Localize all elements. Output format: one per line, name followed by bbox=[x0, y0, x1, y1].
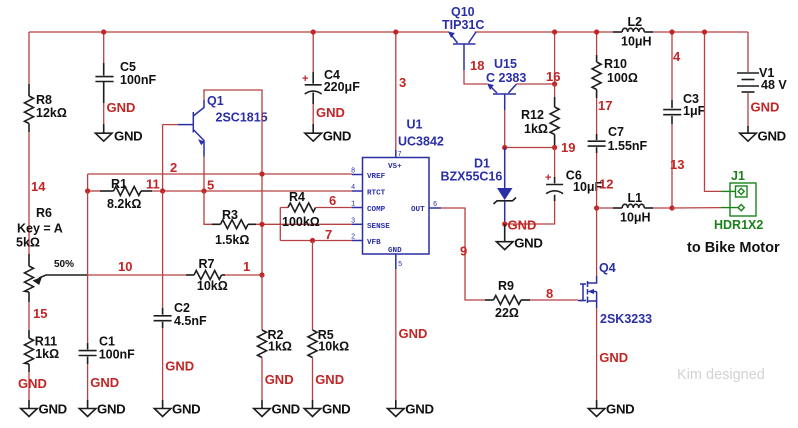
wire line 10 bbox=[88, 274, 262, 276]
svg-text:GND: GND bbox=[514, 236, 542, 251]
svg-text:100kΩ: 100kΩ bbox=[282, 215, 320, 229]
ground V1 bbox=[740, 128, 786, 143]
svg-text:9: 9 bbox=[460, 244, 467, 259]
svg-text:100nF: 100nF bbox=[120, 73, 156, 87]
wire node11 down to C2 bbox=[162, 191, 164, 308]
svg-text:1.55nF: 1.55nF bbox=[608, 139, 648, 153]
resistor R10 bbox=[592, 32, 638, 98]
wire Q1 collector loop bbox=[204, 90, 262, 275]
svg-text:12: 12 bbox=[599, 177, 613, 192]
resistor R3 bbox=[212, 208, 256, 247]
svg-text:GND: GND bbox=[751, 100, 780, 115]
wire line 5 RTCT bbox=[88, 190, 352, 192]
svg-text:Q1: Q1 bbox=[207, 94, 224, 108]
resistor R7 bbox=[186, 257, 228, 293]
svg-text:R9: R9 bbox=[498, 279, 514, 293]
svg-text:16: 16 bbox=[546, 69, 560, 84]
wire R9 to Q4 gate bbox=[530, 299, 578, 301]
wire line 2 VREF bbox=[88, 173, 352, 175]
svg-text:R4: R4 bbox=[289, 190, 305, 204]
svg-text:1.5kΩ: 1.5kΩ bbox=[215, 233, 249, 247]
svg-text:GND: GND bbox=[399, 326, 428, 341]
junction line3 top bbox=[393, 29, 398, 34]
svg-text:C1: C1 bbox=[99, 334, 115, 348]
svg-text:GND: GND bbox=[316, 105, 345, 120]
svg-text:50%: 50% bbox=[54, 259, 74, 270]
junction C3 top bbox=[669, 29, 674, 34]
svg-text:11: 11 bbox=[146, 177, 160, 192]
svg-text:+: + bbox=[545, 172, 551, 184]
svg-text:5kΩ: 5kΩ bbox=[16, 236, 40, 250]
svg-text:1μF: 1μF bbox=[683, 104, 706, 118]
svg-text:GND: GND bbox=[315, 372, 344, 387]
svg-text:10kΩ: 10kΩ bbox=[318, 339, 349, 353]
svg-text:RTCT: RTCT bbox=[367, 190, 386, 198]
svg-text:12kΩ: 12kΩ bbox=[36, 106, 67, 120]
node 7 bbox=[310, 227, 332, 243]
wire Q4 source to ground bbox=[596, 308, 598, 400]
svg-text:R7: R7 bbox=[199, 257, 215, 271]
junction node at 87.6,191 bbox=[85, 188, 90, 193]
svg-text:1: 1 bbox=[243, 259, 250, 274]
wire Q4 drain up bbox=[596, 208, 598, 276]
svg-text:14: 14 bbox=[31, 179, 46, 194]
battery V1 bbox=[737, 32, 787, 133]
svg-text:TIP31C: TIP31C bbox=[442, 18, 484, 32]
junction R3 right bbox=[259, 222, 264, 227]
resistor R1 bbox=[100, 177, 152, 211]
ground D1 bbox=[496, 224, 542, 251]
svg-text:J1: J1 bbox=[731, 169, 745, 183]
svg-text:GND: GND bbox=[758, 128, 786, 143]
resistor R9 bbox=[485, 279, 530, 320]
svg-text:C 2383: C 2383 bbox=[486, 71, 526, 85]
svg-text:R1: R1 bbox=[111, 177, 127, 191]
resistor R2 bbox=[258, 328, 292, 409]
ground C2 bbox=[154, 402, 200, 417]
svg-text:GND: GND bbox=[265, 372, 294, 387]
svg-text:GND: GND bbox=[165, 359, 194, 374]
svg-text:R10: R10 bbox=[604, 57, 627, 71]
wire R2 branch bbox=[261, 275, 263, 330]
inductor L1 bbox=[597, 191, 672, 224]
wire R5 branch bbox=[312, 241, 314, 331]
svg-text:Kim designed: Kim designed bbox=[677, 367, 765, 383]
svg-text:BZX55C16: BZX55C16 bbox=[441, 169, 503, 183]
svg-text:8.2kΩ: 8.2kΩ bbox=[107, 197, 141, 211]
svg-text:GND: GND bbox=[323, 128, 351, 143]
svg-text:100nF: 100nF bbox=[99, 348, 135, 362]
ground U1 bbox=[388, 402, 434, 417]
svg-text:GND: GND bbox=[172, 402, 200, 417]
potentiometer R6 bbox=[16, 206, 88, 292]
junction J1 top feed bbox=[702, 29, 707, 34]
svg-text:VS+: VS+ bbox=[388, 163, 402, 171]
wire Q1 emitter to line 5 bbox=[203, 157, 205, 192]
transistor U15 bbox=[486, 57, 526, 110]
wire Q1 base to node 11 bbox=[162, 125, 164, 191]
svg-text:10: 10 bbox=[118, 259, 132, 274]
junction node 2 at x262 bbox=[259, 171, 264, 176]
svg-text:R12: R12 bbox=[521, 108, 544, 122]
svg-text:C5: C5 bbox=[120, 60, 136, 74]
svg-text:2: 2 bbox=[351, 234, 355, 242]
svg-text:1: 1 bbox=[351, 201, 355, 209]
junction node16 bbox=[552, 81, 557, 86]
node 1 bbox=[243, 259, 265, 278]
svg-text:7: 7 bbox=[398, 151, 402, 159]
op-amp U1 UC3842 bbox=[351, 117, 444, 269]
svg-text:19: 19 bbox=[561, 140, 575, 155]
svg-text:1kΩ: 1kΩ bbox=[524, 122, 548, 136]
capacitor C7 bbox=[588, 125, 648, 208]
svg-text:to Bike Motor: to Bike Motor bbox=[687, 240, 780, 256]
transistor Q1 bbox=[163, 94, 268, 157]
ground R5 bbox=[304, 402, 350, 417]
svg-text:48 V: 48 V bbox=[761, 78, 787, 92]
svg-text:GND: GND bbox=[90, 375, 119, 390]
capacitor C4 bbox=[302, 32, 360, 133]
svg-text:10kΩ: 10kΩ bbox=[197, 279, 228, 293]
svg-text:8: 8 bbox=[351, 168, 355, 176]
svg-text:3: 3 bbox=[351, 217, 355, 225]
svg-text:GND: GND bbox=[599, 350, 628, 365]
svg-text:6: 6 bbox=[329, 193, 336, 208]
ground Q4 bbox=[588, 402, 634, 417]
capacitor C1 bbox=[79, 334, 136, 408]
junction top C4 bbox=[311, 29, 316, 34]
svg-text:4: 4 bbox=[673, 49, 681, 64]
svg-text:18: 18 bbox=[470, 58, 484, 73]
svg-text:15: 15 bbox=[33, 306, 47, 321]
svg-text:Q4: Q4 bbox=[599, 261, 616, 275]
junction node 12 bbox=[594, 205, 599, 210]
ground R2 bbox=[254, 402, 300, 417]
junction top C5 bbox=[101, 29, 106, 34]
svg-text:13: 13 bbox=[670, 157, 684, 172]
svg-text:10μH: 10μH bbox=[621, 35, 652, 49]
svg-text:2SK3233: 2SK3233 bbox=[600, 312, 652, 326]
node 11 bbox=[146, 177, 165, 194]
svg-text:GND: GND bbox=[388, 247, 402, 255]
svg-text:VREF: VREF bbox=[367, 173, 386, 181]
svg-text:22Ω: 22Ω bbox=[495, 306, 519, 320]
wire U15 base to line 19 bbox=[504, 110, 506, 148]
capacitor C3 bbox=[663, 32, 705, 208]
svg-text:C7: C7 bbox=[608, 125, 624, 139]
ground R11 bbox=[21, 402, 67, 417]
resistor R8 bbox=[25, 93, 67, 124]
svg-text:L1: L1 bbox=[628, 191, 643, 205]
svg-text:GND: GND bbox=[18, 376, 47, 391]
junction D1 gnd bbox=[502, 221, 507, 226]
junction line19 right bbox=[552, 145, 557, 150]
svg-text:17: 17 bbox=[598, 98, 612, 113]
svg-text:R6: R6 bbox=[36, 206, 52, 220]
svg-text:100Ω: 100Ω bbox=[607, 71, 638, 85]
svg-text:6: 6 bbox=[433, 201, 437, 209]
svg-text:2SC1815: 2SC1815 bbox=[216, 111, 268, 125]
svg-text:L2: L2 bbox=[628, 15, 643, 29]
ground C4 bbox=[305, 128, 351, 143]
svg-text:1kΩ: 1kΩ bbox=[35, 347, 59, 361]
junction line19 left bbox=[502, 145, 507, 150]
svg-text:SENSE: SENSE bbox=[367, 223, 390, 231]
capacitor C2 bbox=[154, 301, 207, 409]
resistor R11 bbox=[25, 335, 60, 364]
svg-text:GND: GND bbox=[107, 100, 136, 115]
svg-text:5: 5 bbox=[207, 178, 214, 193]
wire line 19 bbox=[505, 147, 555, 149]
junction R10 top bbox=[594, 29, 599, 34]
wire node 17 bbox=[596, 98, 598, 134]
svg-text:GND: GND bbox=[272, 402, 300, 417]
svg-text:8: 8 bbox=[546, 286, 553, 301]
svg-text:GND: GND bbox=[508, 218, 537, 233]
wire line 2 corner down bbox=[87, 174, 89, 191]
svg-text:3: 3 bbox=[399, 75, 406, 90]
wire J1 top feed bbox=[705, 32, 722, 191]
svg-text:OUT: OUT bbox=[411, 206, 425, 214]
wire line 16 vertical bbox=[554, 32, 556, 84]
wire U1 pin5 to ground bbox=[395, 269, 397, 400]
svg-text:COMP: COMP bbox=[367, 206, 386, 214]
svg-text:R8: R8 bbox=[36, 93, 52, 107]
svg-text:5: 5 bbox=[398, 261, 402, 269]
wire emitter node down to R3 bbox=[204, 191, 212, 224]
svg-text:GND: GND bbox=[405, 402, 433, 417]
svg-text:VFB: VFB bbox=[367, 239, 381, 247]
svg-text:GND: GND bbox=[97, 402, 125, 417]
diode D1 zener bbox=[441, 148, 517, 225]
wire line 3 bbox=[395, 32, 397, 151]
svg-text:+: + bbox=[302, 73, 308, 85]
resistor R12 bbox=[521, 84, 559, 148]
svg-text:C2: C2 bbox=[174, 301, 190, 315]
svg-text:4.5nF: 4.5nF bbox=[174, 314, 207, 328]
transistor Q4 bbox=[578, 261, 652, 326]
svg-text:2: 2 bbox=[170, 160, 177, 175]
svg-text:R3: R3 bbox=[222, 208, 238, 222]
wire J1 bottom feed bbox=[672, 207, 721, 209]
transistor Q10 bbox=[442, 5, 484, 70]
ground C5 bbox=[95, 128, 142, 143]
svg-text:UC3842: UC3842 bbox=[398, 135, 444, 149]
svg-text:1kΩ: 1kΩ bbox=[268, 339, 292, 353]
wire left rail bbox=[28, 32, 30, 409]
wire U15 collector to node 16 bbox=[517, 83, 555, 85]
wire vertical x87 to C1 bbox=[87, 191, 89, 343]
junction C3 bottom bbox=[669, 205, 674, 210]
junction node16 top bbox=[552, 29, 557, 34]
capacitor C6 bbox=[505, 148, 603, 225]
wire OUT node 9 bbox=[441, 208, 485, 300]
svg-text:4: 4 bbox=[351, 184, 355, 192]
svg-text:10μH: 10μH bbox=[620, 210, 651, 224]
wire top rail bbox=[29, 31, 748, 33]
svg-text:GND: GND bbox=[606, 402, 634, 417]
svg-text:U1: U1 bbox=[407, 117, 423, 131]
svg-text:U15: U15 bbox=[494, 57, 517, 71]
svg-text:GND: GND bbox=[39, 402, 67, 417]
wire Q10 base to U15 emitter bbox=[464, 70, 487, 84]
connector J1 bbox=[714, 169, 763, 232]
wire VFB line node 7 bbox=[280, 240, 352, 242]
svg-text:GND: GND bbox=[114, 128, 142, 143]
svg-text:220μF: 220μF bbox=[324, 80, 361, 94]
svg-text:Key = A: Key = A bbox=[17, 222, 63, 236]
inductor L2 bbox=[621, 15, 652, 49]
resistor R4 bbox=[280, 190, 352, 241]
resistor R5 bbox=[308, 328, 349, 409]
svg-text:GND: GND bbox=[322, 402, 350, 417]
capacitor C5 bbox=[95, 32, 156, 133]
ground C1 bbox=[79, 402, 125, 417]
svg-text:Q10: Q10 bbox=[451, 5, 475, 19]
node 5 bbox=[201, 178, 214, 194]
svg-text:HDR1X2: HDR1X2 bbox=[714, 218, 763, 232]
svg-text:7: 7 bbox=[325, 227, 332, 242]
wire SENSE line node 3 bbox=[256, 223, 352, 225]
